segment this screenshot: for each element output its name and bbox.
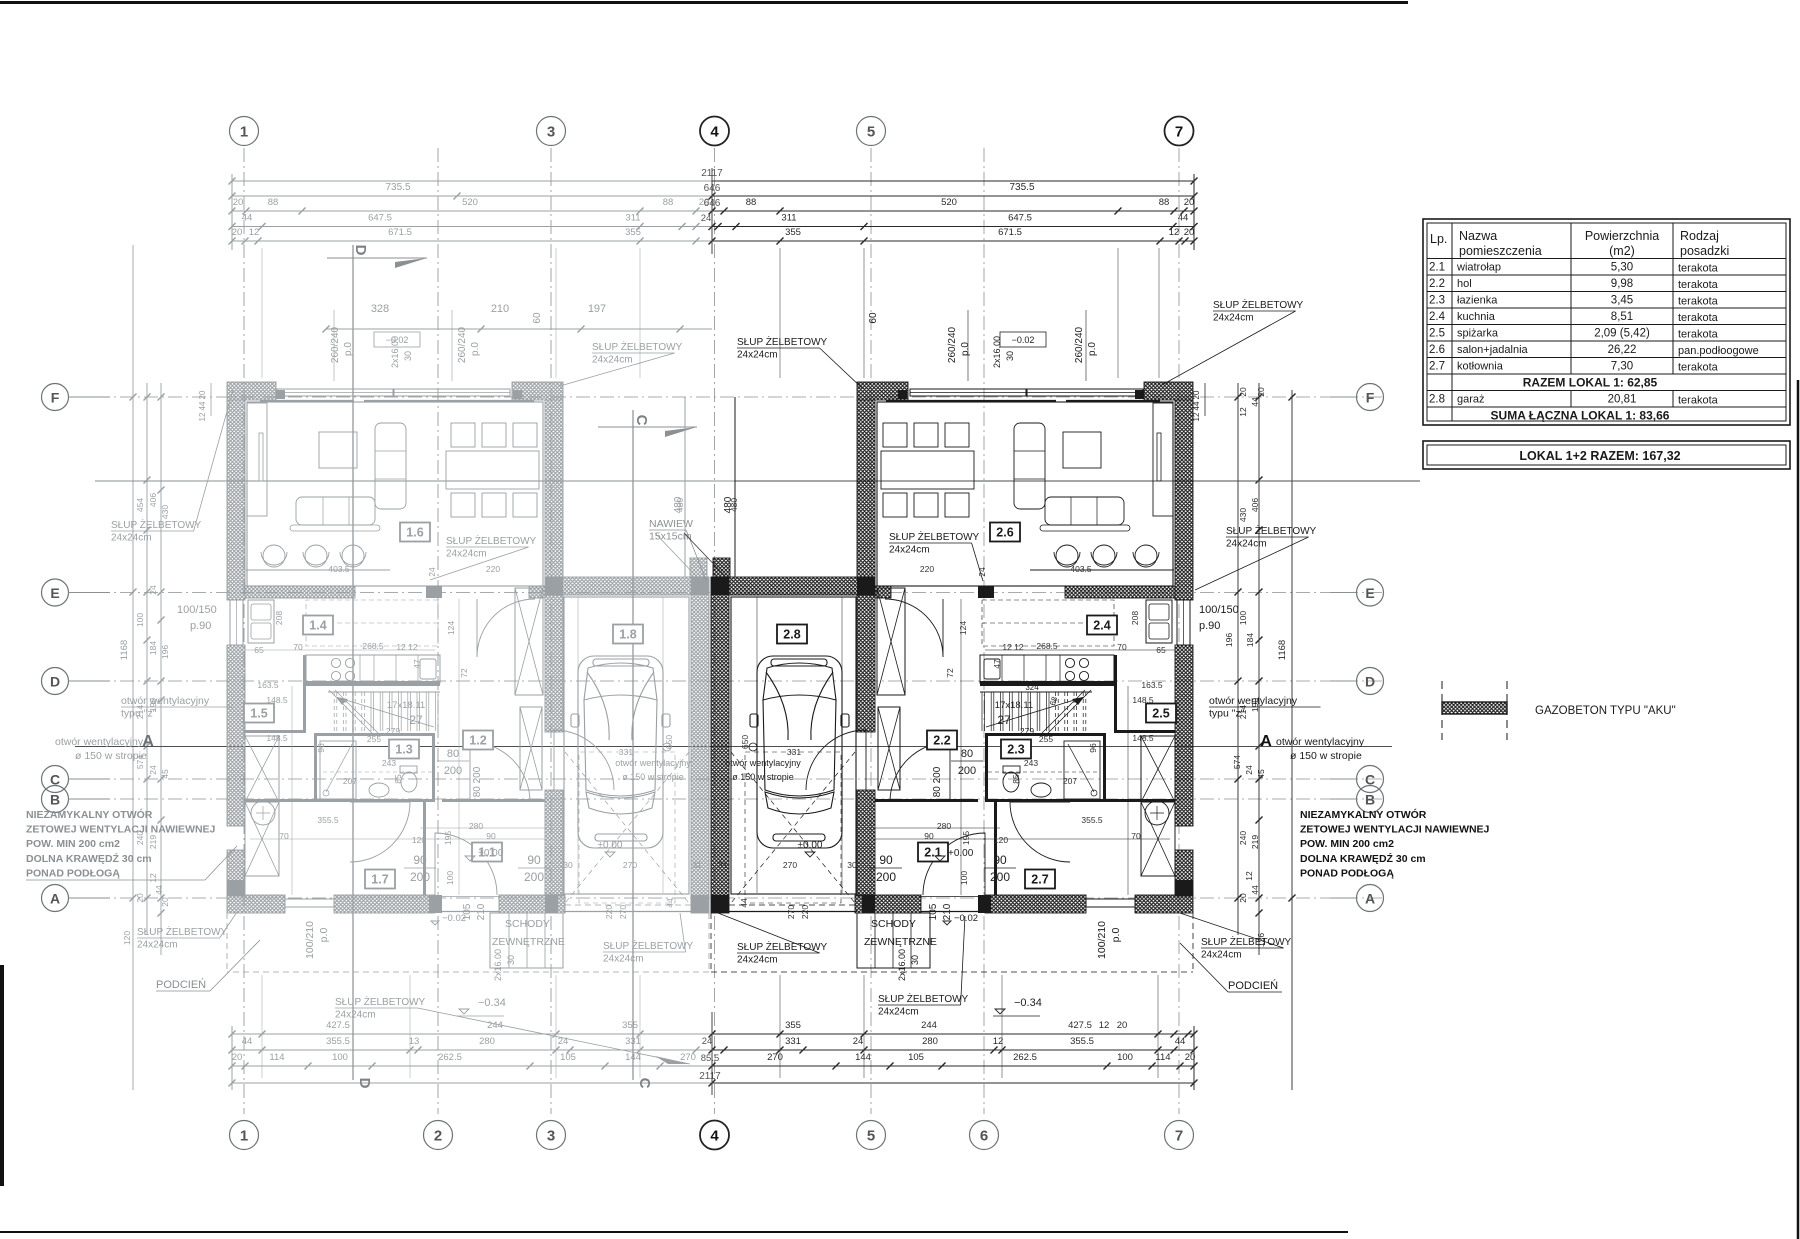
- svg-text:20: 20: [233, 197, 244, 208]
- svg-text:70: 70: [1131, 831, 1141, 841]
- corner mini chains: [210, 383, 212, 416]
- svg-text:268.5: 268.5: [362, 641, 384, 651]
- svg-text:735.5: 735.5: [1009, 182, 1034, 193]
- svg-text:219: 219: [148, 835, 158, 849]
- svg-text:SŁUP ŻELBETOWY: SŁUP ŻELBETOWY: [1226, 524, 1317, 537]
- svg-text:SŁUP ŻELBETOWY: SŁUP ŻELBETOWY: [889, 530, 980, 543]
- svg-text:70: 70: [279, 831, 289, 841]
- svg-text:GAZOBETON TYPU "AKU": GAZOBETON TYPU "AKU": [1535, 705, 1676, 717]
- svg-text:163.5: 163.5: [1141, 680, 1163, 690]
- svg-text:270: 270: [783, 860, 797, 870]
- svg-text:208: 208: [274, 611, 284, 625]
- svg-text:240: 240: [1238, 831, 1248, 845]
- svg-text:184: 184: [148, 641, 158, 655]
- lokal razem box: [1423, 441, 1790, 469]
- svg-text:p.0: p.0: [343, 342, 354, 356]
- svg-text:spiżarka: spiżarka: [1457, 328, 1499, 340]
- svg-text:244: 244: [921, 1020, 937, 1031]
- svg-text:60: 60: [532, 312, 543, 324]
- svg-text:280: 280: [479, 1036, 495, 1047]
- svg-text:105: 105: [928, 903, 939, 920]
- svg-text:Nazwa: Nazwa: [1459, 229, 1497, 243]
- svg-text:kotłownia: kotłownia: [1457, 361, 1504, 373]
- svg-text:47: 47: [992, 659, 1002, 669]
- svg-text:SŁUP ŻELBETOWY: SŁUP ŻELBETOWY: [592, 340, 683, 353]
- svg-text:13: 13: [409, 1036, 420, 1047]
- svg-text:p.0: p.0: [1110, 928, 1122, 943]
- svg-text:44: 44: [1250, 397, 1260, 407]
- svg-text:2.2: 2.2: [1429, 278, 1445, 290]
- svg-text:9,98: 9,98: [1611, 278, 1633, 290]
- svg-text:311: 311: [625, 213, 640, 224]
- svg-text:20,81: 20,81: [1608, 394, 1637, 406]
- svg-text:44: 44: [665, 898, 675, 908]
- svg-text:SCHODY: SCHODY: [505, 918, 550, 930]
- svg-text:268.5: 268.5: [1036, 641, 1058, 651]
- svg-text:220: 220: [604, 905, 614, 919]
- svg-text:1.3: 1.3: [395, 743, 412, 757]
- grid column bubbles top: [230, 117, 259, 146]
- svg-text:27: 27: [409, 713, 423, 727]
- svg-text:403.5: 403.5: [1070, 564, 1092, 574]
- top dimension chains: [232, 180, 712, 182]
- svg-text:427.5: 427.5: [326, 1020, 350, 1031]
- svg-text:26,22: 26,22: [1608, 344, 1637, 356]
- svg-text:DOLNA KRAWĘDŹ 30 cm: DOLNA KRAWĘDŹ 30 cm: [1300, 852, 1426, 865]
- svg-text:65: 65: [1156, 645, 1166, 655]
- svg-text:1168: 1168: [119, 640, 130, 660]
- svg-text:SUMA ŁĄCZNA LOKAL 1: 83,66: SUMA ŁĄCZNA LOKAL 1: 83,66: [1491, 409, 1670, 423]
- svg-text:280: 280: [469, 821, 483, 831]
- svg-text:p.90: p.90: [190, 620, 211, 632]
- svg-text:3: 3: [547, 124, 555, 141]
- svg-text:ø 150 w stropie: ø 150 w stropie: [622, 772, 684, 782]
- svg-text:24: 24: [853, 1036, 864, 1047]
- svg-text:SŁUP ŻELBETOWY: SŁUP ŻELBETOWY: [878, 992, 969, 1005]
- svg-text:24x24cm: 24x24cm: [111, 533, 152, 544]
- svg-text:6: 6: [980, 1128, 988, 1145]
- svg-text:5: 5: [867, 1128, 875, 1145]
- svg-text:4: 4: [710, 1128, 719, 1145]
- svg-text:196: 196: [1224, 633, 1234, 647]
- svg-text:355: 355: [622, 1020, 638, 1031]
- svg-text:148.5: 148.5: [1132, 695, 1154, 705]
- svg-text:671.5: 671.5: [388, 227, 412, 238]
- svg-text:wiatrołap: wiatrołap: [1456, 262, 1501, 274]
- svg-text:280: 280: [922, 1036, 938, 1047]
- svg-text:331: 331: [787, 747, 801, 757]
- svg-text:12: 12: [1244, 871, 1254, 881]
- svg-text:24: 24: [427, 567, 437, 577]
- svg-text:7: 7: [1175, 124, 1183, 141]
- svg-text:406: 406: [1250, 498, 1260, 512]
- svg-text:12: 12: [249, 227, 260, 238]
- svg-text:20: 20: [135, 893, 145, 903]
- svg-text:24x24cm: 24x24cm: [1213, 313, 1254, 324]
- svg-text:2,09 (5,42): 2,09 (5,42): [1594, 328, 1650, 340]
- svg-text:ZEWNĘTRZNE: ZEWNĘTRZNE: [864, 936, 937, 948]
- svg-text:24x24cm: 24x24cm: [737, 350, 778, 361]
- svg-text:12: 12: [993, 1036, 1004, 1047]
- svg-text:31: 31: [718, 860, 728, 870]
- svg-text:otwór wentylacyjny: otwór wentylacyjny: [121, 695, 210, 707]
- svg-text:24x24cm: 24x24cm: [446, 549, 487, 560]
- svg-text:(m2): (m2): [1609, 244, 1635, 258]
- svg-text:90: 90: [527, 853, 541, 867]
- svg-text:POW. MIN 200 cm2: POW. MIN 200 cm2: [26, 838, 120, 850]
- svg-text:terakota: terakota: [1678, 312, 1719, 324]
- svg-text:2x16.00: 2x16.00: [992, 336, 1002, 368]
- svg-text:24: 24: [148, 765, 158, 775]
- svg-text:72: 72: [945, 668, 955, 678]
- svg-text:2x16.00: 2x16.00: [897, 949, 907, 981]
- svg-text:120: 120: [412, 835, 426, 845]
- bottom dimension chains: [232, 1033, 712, 1035]
- svg-text:20: 20: [232, 1052, 243, 1063]
- svg-text:100: 100: [445, 871, 455, 885]
- svg-text:pan.podłoogowe: pan.podłoogowe: [1678, 345, 1759, 357]
- svg-text:90: 90: [879, 853, 893, 867]
- svg-text:220: 220: [920, 564, 934, 574]
- svg-text:105: 105: [560, 1052, 576, 1063]
- svg-text:65: 65: [254, 645, 264, 655]
- grid row bubbles right: [1357, 384, 1384, 411]
- svg-text:279: 279: [386, 726, 400, 736]
- svg-text:90: 90: [993, 853, 1007, 867]
- svg-text:12: 12: [148, 873, 158, 883]
- svg-text:70: 70: [293, 642, 303, 652]
- svg-text:24x24cm: 24x24cm: [603, 954, 644, 965]
- svg-text:D: D: [352, 245, 369, 256]
- svg-text:terakota: terakota: [1678, 263, 1719, 275]
- svg-text:2.6: 2.6: [996, 526, 1013, 540]
- svg-text:105: 105: [908, 1052, 924, 1063]
- svg-text:−0.34: −0.34: [478, 997, 506, 1009]
- svg-text:243: 243: [1024, 758, 1038, 768]
- svg-text:terakota: terakota: [1678, 329, 1719, 341]
- legend gazobeton: [1441, 681, 1443, 740]
- svg-text:196: 196: [160, 645, 170, 659]
- svg-text:otwór wentylacyjny: otwór wentylacyjny: [55, 736, 144, 748]
- svg-text:270: 270: [623, 860, 637, 870]
- svg-text:24x24cm: 24x24cm: [137, 940, 178, 951]
- svg-text:96: 96: [1088, 743, 1098, 753]
- svg-text:1.2: 1.2: [469, 734, 486, 748]
- svg-text:1: 1: [240, 124, 248, 141]
- section line A-A horizontal: [75, 746, 1392, 748]
- svg-text:17x18.11: 17x18.11: [387, 700, 425, 711]
- svg-text:184: 184: [1245, 633, 1255, 647]
- svg-text:88: 88: [663, 197, 674, 208]
- svg-text:100: 100: [135, 613, 145, 627]
- right vertical dimension chains: [1237, 383, 1239, 935]
- svg-text:24x24cm: 24x24cm: [889, 545, 930, 556]
- svg-text:2.3: 2.3: [1007, 743, 1024, 757]
- svg-text:20: 20: [1238, 893, 1248, 903]
- sheet frame left bar: [0, 965, 4, 1186]
- svg-text:garaż: garaż: [1457, 394, 1485, 406]
- svg-text:355: 355: [785, 227, 801, 238]
- svg-text:90: 90: [413, 853, 427, 867]
- svg-text:163.5: 163.5: [257, 680, 279, 690]
- svg-text:148.5: 148.5: [266, 733, 288, 743]
- svg-text:44: 44: [154, 885, 164, 895]
- svg-text:2.4: 2.4: [1093, 619, 1110, 633]
- svg-text:D: D: [1365, 674, 1375, 690]
- svg-text:331: 331: [619, 747, 633, 757]
- svg-text:24x24cm: 24x24cm: [592, 355, 633, 366]
- svg-text:1.7: 1.7: [371, 873, 388, 887]
- svg-text:12: 12: [1099, 1020, 1110, 1031]
- svg-text:355: 355: [625, 227, 641, 238]
- svg-text:SŁUP ŻELBETOWY: SŁUP ŻELBETOWY: [446, 534, 537, 547]
- svg-text:735.5: 735.5: [385, 182, 410, 193]
- svg-text:90: 90: [486, 831, 496, 841]
- svg-text:otwór wentylacyjny: otwór wentylacyjny: [725, 758, 801, 768]
- svg-text:posadzki: posadzki: [1680, 244, 1729, 258]
- svg-text:C: C: [636, 1078, 653, 1089]
- svg-text:+0.00: +0.00: [478, 848, 504, 859]
- svg-text:terakota: terakota: [1678, 296, 1719, 308]
- svg-text:+0.00: +0.00: [948, 848, 974, 859]
- svg-text:44: 44: [242, 1036, 253, 1047]
- svg-text:PODCIEŃ: PODCIEŃ: [156, 978, 206, 991]
- svg-text:A: A: [142, 733, 154, 750]
- svg-text:−0.02: −0.02: [1012, 335, 1035, 345]
- svg-text:2.1: 2.1: [1429, 262, 1445, 274]
- svg-text:148.5: 148.5: [1132, 733, 1154, 743]
- svg-text:±0.00: ±0.00: [598, 840, 623, 851]
- svg-text:NAWIEW: NAWIEW: [649, 518, 693, 530]
- svg-text:279: 279: [1020, 726, 1034, 736]
- svg-text:p.0: p.0: [470, 342, 481, 356]
- svg-text:30: 30: [1005, 351, 1015, 361]
- svg-text:17x18.11: 17x18.11: [995, 700, 1033, 711]
- svg-text:12: 12: [1169, 227, 1180, 238]
- svg-text:łazienka: łazienka: [1457, 295, 1498, 307]
- svg-text:197: 197: [588, 303, 606, 315]
- svg-text:355.5: 355.5: [317, 815, 339, 825]
- svg-text:otwór wentylacyjny: otwór wentylacyjny: [1276, 736, 1365, 748]
- svg-text:±0.00: ±0.00: [798, 840, 823, 851]
- svg-text:355: 355: [785, 1020, 801, 1031]
- svg-text:A: A: [50, 891, 60, 907]
- svg-text:324: 324: [1025, 683, 1039, 692]
- svg-text:195: 195: [961, 831, 971, 845]
- svg-text:650: 650: [740, 735, 750, 749]
- grid horizontal dash-dot lines: [72, 396, 1385, 398]
- svg-text:270: 270: [618, 905, 628, 919]
- svg-text:88: 88: [1159, 197, 1170, 208]
- svg-text:72: 72: [459, 668, 469, 678]
- svg-text:454: 454: [135, 498, 145, 512]
- svg-text:100: 100: [959, 871, 969, 885]
- svg-text:24: 24: [702, 1036, 713, 1047]
- svg-text:12 12: 12 12: [1002, 642, 1024, 652]
- svg-text:200: 200: [958, 765, 976, 777]
- svg-text:E: E: [1365, 585, 1374, 601]
- svg-text:2x16.00: 2x16.00: [493, 949, 503, 981]
- svg-text:7: 7: [1175, 1128, 1183, 1145]
- svg-text:124: 124: [446, 621, 456, 635]
- svg-text:SŁUP ŻELBETOWY: SŁUP ŻELBETOWY: [137, 925, 228, 938]
- svg-text:331: 331: [785, 1036, 801, 1047]
- svg-text:45: 45: [1256, 769, 1266, 779]
- svg-text:2.8: 2.8: [783, 628, 800, 642]
- svg-text:671.5: 671.5: [998, 227, 1022, 238]
- svg-text:p.0: p.0: [318, 928, 330, 943]
- svg-text:120: 120: [122, 931, 132, 945]
- svg-text:3: 3: [547, 1128, 555, 1145]
- svg-text:pomieszczenia: pomieszczenia: [1459, 244, 1542, 258]
- svg-text:20: 20: [198, 390, 207, 399]
- svg-text:210: 210: [942, 903, 953, 920]
- section mark C vertical: [632, 410, 634, 1080]
- svg-text:355.5: 355.5: [326, 1036, 350, 1047]
- svg-text:260/240: 260/240: [1074, 326, 1085, 363]
- svg-text:2: 2: [434, 1128, 442, 1145]
- svg-text:148.5: 148.5: [266, 695, 288, 705]
- svg-text:PONAD PODŁOGĄ: PONAD PODŁOGĄ: [1300, 867, 1394, 879]
- svg-text:114: 114: [269, 1052, 284, 1063]
- svg-text:kuchnia: kuchnia: [1457, 311, 1496, 323]
- svg-text:262.5: 262.5: [438, 1052, 462, 1063]
- svg-text:270: 270: [767, 1052, 783, 1063]
- svg-text:243: 243: [382, 758, 396, 768]
- svg-text:255: 255: [367, 734, 381, 744]
- svg-text:24: 24: [701, 213, 712, 224]
- svg-text:2.4: 2.4: [1429, 311, 1446, 323]
- svg-text:20: 20: [1184, 227, 1195, 238]
- svg-text:2.3: 2.3: [1429, 295, 1445, 307]
- svg-text:44: 44: [1178, 213, 1189, 224]
- svg-text:SŁUP ŻELBETOWY: SŁUP ŻELBETOWY: [737, 335, 828, 348]
- svg-text:427.5: 427.5: [1068, 1020, 1092, 1031]
- svg-text:LOKAL 1+2 RAZEM: 167,32: LOKAL 1+2 RAZEM: 167,32: [1519, 449, 1680, 463]
- svg-text:85.5: 85.5: [701, 1053, 720, 1064]
- svg-text:−0.34: −0.34: [1014, 997, 1042, 1009]
- svg-text:88: 88: [746, 197, 757, 208]
- svg-text:220: 220: [486, 564, 500, 574]
- svg-text:ZETOWEJ WENTYLACJI NAWIEWNEJ: ZETOWEJ WENTYLACJI NAWIEWNEJ: [1300, 824, 1490, 836]
- svg-text:480: 480: [723, 496, 734, 513]
- svg-text:30: 30: [847, 860, 857, 870]
- svg-text:220: 220: [800, 905, 810, 919]
- svg-text:80: 80: [447, 748, 459, 760]
- svg-text:219: 219: [1250, 835, 1260, 849]
- svg-text:Powierzchnia: Powierzchnia: [1585, 229, 1659, 243]
- svg-text:100: 100: [1238, 611, 1248, 625]
- svg-text:90: 90: [924, 831, 934, 841]
- svg-text:195: 195: [443, 831, 453, 845]
- svg-text:647.5: 647.5: [368, 213, 392, 224]
- svg-text:20: 20: [160, 897, 170, 907]
- svg-text:24x24cm: 24x24cm: [335, 1010, 376, 1021]
- svg-text:27: 27: [997, 713, 1011, 727]
- svg-text:355.5: 355.5: [1070, 1036, 1094, 1047]
- svg-text:−0.02: −0.02: [954, 913, 978, 924]
- left unit (mirrored, gray): [227, 382, 709, 972]
- svg-text:1.6: 1.6: [406, 526, 423, 540]
- svg-text:1.5: 1.5: [250, 707, 267, 721]
- svg-text:44: 44: [242, 213, 253, 224]
- svg-text:200: 200: [990, 870, 1010, 884]
- svg-text:24: 24: [1244, 765, 1254, 775]
- svg-text:F: F: [51, 390, 60, 406]
- svg-text:44: 44: [739, 898, 749, 908]
- svg-text:A: A: [1260, 733, 1272, 750]
- svg-text:5: 5: [867, 124, 875, 141]
- svg-text:D: D: [356, 1078, 373, 1089]
- svg-text:200: 200: [410, 870, 430, 884]
- svg-text:30: 30: [910, 955, 920, 965]
- svg-text:RAZEM LOKAL 1: 62,85: RAZEM LOKAL 1: 62,85: [1523, 376, 1658, 390]
- svg-text:typu "z": typu "z": [121, 708, 157, 720]
- svg-text:salon+jadalnia: salon+jadalnia: [1457, 344, 1529, 356]
- svg-text:96: 96: [316, 743, 326, 753]
- svg-text:SŁUP ŻELBETOWY: SŁUP ŻELBETOWY: [603, 939, 694, 952]
- svg-text:1: 1: [240, 1128, 248, 1145]
- svg-text:650: 650: [664, 735, 674, 749]
- svg-text:F: F: [1366, 390, 1375, 406]
- svg-text:207: 207: [1063, 776, 1077, 786]
- svg-text:ø 150 w stropie: ø 150 w stropie: [732, 772, 794, 782]
- svg-text:otwór wentylacyjny: otwór wentylacyjny: [1209, 695, 1298, 707]
- svg-text:terakota: terakota: [1678, 362, 1719, 374]
- svg-text:B: B: [1365, 792, 1375, 808]
- svg-text:520: 520: [462, 197, 478, 208]
- svg-text:100: 100: [1117, 1052, 1133, 1063]
- svg-text:2.8: 2.8: [1429, 394, 1445, 406]
- svg-text:20: 20: [1256, 387, 1266, 397]
- svg-text:210: 210: [476, 903, 487, 920]
- svg-text:30: 30: [506, 955, 516, 965]
- section line B horizontal: [95, 480, 735, 482]
- svg-text:2.5: 2.5: [1429, 328, 1445, 340]
- svg-text:4: 4: [710, 124, 719, 141]
- sheet frame right: [1797, 380, 1800, 1239]
- svg-text:355.5: 355.5: [1081, 815, 1103, 825]
- svg-text:30: 30: [563, 860, 573, 870]
- svg-text:85: 85: [1011, 774, 1021, 784]
- svg-text:ZETOWEJ WENTYLACJI NAWIEWNEJ: ZETOWEJ WENTYLACJI NAWIEWNEJ: [26, 824, 216, 836]
- svg-text:24x24cm: 24x24cm: [878, 1007, 919, 1018]
- svg-text:B: B: [50, 792, 60, 808]
- svg-text:typu "z": typu "z": [1209, 708, 1245, 720]
- svg-text:24x24cm: 24x24cm: [1201, 950, 1242, 961]
- svg-text:C: C: [633, 415, 650, 426]
- svg-text:ø 150 w stropie: ø 150 w stropie: [1290, 750, 1362, 762]
- svg-text:NIEZAMYKALNY OTWÓR: NIEZAMYKALNY OTWÓR: [26, 808, 153, 821]
- svg-text:POW. MIN 200 cm2: POW. MIN 200 cm2: [1300, 838, 1394, 850]
- svg-text:144: 144: [855, 1052, 871, 1063]
- svg-text:47: 47: [412, 659, 422, 669]
- svg-text:105: 105: [462, 903, 473, 920]
- svg-text:DOLNA KRAWĘDŹ 30 cm: DOLNA KRAWĘDŹ 30 cm: [26, 852, 152, 865]
- section mark D vertical: [352, 245, 354, 1080]
- svg-text:200: 200: [876, 870, 896, 884]
- svg-text:260/240: 260/240: [457, 326, 468, 363]
- svg-text:ZEWNĘTRZNE: ZEWNĘTRZNE: [492, 936, 565, 948]
- svg-text:200: 200: [444, 765, 462, 777]
- sheet frame top: [0, 1, 1408, 4]
- svg-text:114: 114: [1155, 1052, 1170, 1063]
- svg-text:SŁUP ŻELBETOWY: SŁUP ŻELBETOWY: [111, 518, 202, 531]
- svg-text:PONAD PODŁOGĄ: PONAD PODŁOGĄ: [26, 867, 120, 879]
- svg-text:Lp.: Lp.: [1430, 232, 1447, 246]
- svg-text:88: 88: [268, 197, 279, 208]
- svg-text:30: 30: [403, 351, 413, 361]
